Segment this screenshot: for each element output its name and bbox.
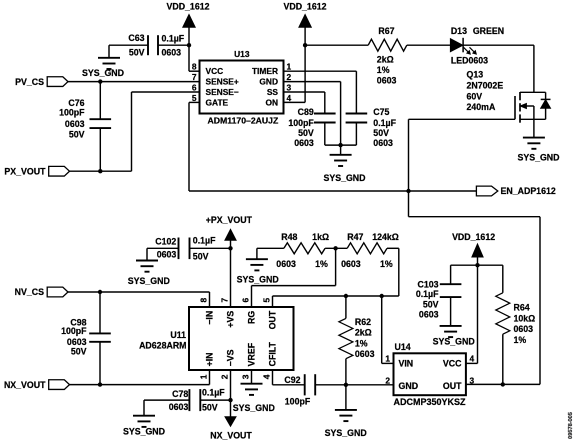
svg-text:0603: 0603 [341,259,361,269]
svg-text:SYS_GND: SYS_GND [323,173,365,183]
svg-text:VDD_1612: VDD_1612 [452,232,495,242]
svg-text:3: 3 [287,82,292,92]
svg-text:0603: 0603 [377,75,397,85]
svg-text:0.1µF: 0.1µF [416,289,439,299]
svg-text:1%: 1% [315,259,328,269]
svg-text:5: 5 [261,298,271,303]
svg-text:C63: C63 [128,33,144,43]
svg-text:U13: U13 [234,49,250,59]
svg-text:Q13: Q13 [467,70,484,80]
svg-text:1%: 1% [380,259,393,269]
svg-text:100pF: 100pF [59,108,85,118]
svg-text:C102: C102 [155,237,176,247]
svg-text:ADM1170–2AUJZ: ADM1170–2AUJZ [208,115,279,125]
svg-text:0603: 0603 [169,402,189,412]
svg-text:R67: R67 [378,26,394,36]
svg-text:VIN: VIN [399,359,414,369]
svg-text:VDD_1612: VDD_1612 [166,1,209,11]
svg-text:0603: 0603 [65,119,85,129]
svg-text:VCC: VCC [206,66,224,76]
svg-text:1: 1 [385,354,390,364]
svg-text:50V: 50V [373,128,389,138]
svg-text:+VS: +VS [225,311,235,328]
svg-text:SYS_GND: SYS_GND [233,403,275,413]
svg-text:R47: R47 [347,232,363,242]
svg-text:8: 8 [198,298,208,303]
svg-text:LED0603: LED0603 [451,56,488,66]
svg-text:NX_VOUT: NX_VOUT [210,431,252,441]
svg-text:C75: C75 [373,107,389,117]
svg-text:SYS_GND: SYS_GND [237,274,279,284]
svg-text:0603: 0603 [514,324,534,334]
svg-text:CFILT: CFILT [267,342,277,367]
svg-text:R64: R64 [514,303,530,313]
svg-text:2: 2 [385,375,390,385]
svg-text:1: 1 [287,62,292,72]
svg-text:VCC: VCC [443,359,462,369]
svg-text:5: 5 [192,93,197,103]
svg-text:100pF: 100pF [61,326,87,336]
svg-text:GND: GND [259,77,278,87]
svg-text:0.1µF: 0.1µF [202,387,225,397]
svg-text:C76: C76 [68,98,84,108]
svg-text:GATE: GATE [206,97,229,107]
svg-text:VDD_1612: VDD_1612 [283,1,326,11]
svg-text:10kΩ: 10kΩ [514,313,536,323]
svg-text:R62: R62 [355,317,371,327]
svg-text:SYS_GND: SYS_GND [433,336,475,346]
svg-text:NV_CS: NV_CS [15,287,44,297]
svg-text:4: 4 [470,354,475,364]
svg-text:7: 7 [219,298,229,303]
svg-text:C92: C92 [284,375,300,385]
svg-text:+IN: +IN [204,352,214,366]
svg-text:0603: 0603 [276,259,296,269]
svg-text:SYS_GND: SYS_GND [128,276,170,286]
svg-text:ADCMP350YKSZ: ADCMP350YKSZ [394,397,467,407]
svg-text:EN_ADP1612: EN_ADP1612 [501,186,556,196]
svg-text:0.1µF: 0.1µF [193,236,216,246]
svg-text:6: 6 [240,298,250,303]
svg-text:09578-005: 09578-005 [568,412,574,439]
svg-text:50V: 50V [202,403,218,413]
svg-text:OUT: OUT [443,381,462,391]
svg-text:SYS_GND: SYS_GND [82,68,124,78]
svg-text:1kΩ: 1kΩ [312,232,329,242]
svg-text:4: 4 [261,374,271,379]
svg-text:−VS: −VS [225,349,235,366]
svg-text:100pF: 100pF [285,396,311,406]
svg-text:1%: 1% [355,338,368,348]
svg-text:R48: R48 [281,232,297,242]
svg-text:1: 1 [198,374,208,379]
svg-text:SS: SS [267,87,279,97]
svg-text:0603: 0603 [355,349,375,359]
svg-text:SYS_GND: SYS_GND [123,426,165,436]
svg-text:C78: C78 [172,389,188,399]
svg-text:RG: RG [246,311,256,324]
svg-text:2kΩ: 2kΩ [355,328,372,338]
svg-text:0603: 0603 [419,309,439,319]
svg-text:1%: 1% [377,65,390,75]
svg-text:0603: 0603 [294,138,314,148]
svg-text:0.1µF: 0.1µF [162,33,185,43]
svg-text:GREEN: GREEN [473,26,504,36]
svg-text:50V: 50V [129,48,145,58]
svg-text:C89: C89 [298,107,314,117]
svg-text:SENSE−: SENSE− [206,87,239,97]
svg-text:−IN: −IN [204,311,214,325]
svg-text:ON: ON [265,97,278,107]
svg-text:D13: D13 [451,26,467,36]
svg-text:0.1µF: 0.1µF [373,118,396,128]
svg-text:SYS_GND: SYS_GND [325,428,367,438]
svg-text:2N7002E: 2N7002E [467,80,504,90]
svg-text:PV_CS: PV_CS [15,77,44,87]
svg-text:NX_VOUT: NX_VOUT [4,380,46,390]
svg-text:SYS_GND: SYS_GND [517,152,559,162]
svg-text:50V: 50V [71,346,87,356]
svg-text:U11: U11 [170,330,186,340]
svg-text:8: 8 [192,62,197,72]
svg-text:124kΩ: 124kΩ [372,232,399,242]
svg-text:TIMER: TIMER [252,66,278,76]
svg-text:0603: 0603 [373,138,393,148]
svg-text:AD628ARM: AD628ARM [139,341,186,351]
svg-text:U14: U14 [395,342,411,352]
svg-text:50V: 50V [193,251,209,261]
svg-text:1%: 1% [514,335,527,345]
svg-text:+PX_VOUT: +PX_VOUT [206,215,253,225]
svg-text:6: 6 [192,82,197,92]
svg-text:50V: 50V [423,300,439,310]
svg-text:0603: 0603 [157,250,177,260]
svg-text:SENSE+: SENSE+ [206,77,239,87]
svg-text:4: 4 [287,93,292,103]
svg-text:3: 3 [240,374,250,379]
svg-text:100pF: 100pF [288,118,314,128]
svg-text:GND: GND [399,381,419,391]
svg-text:OUT: OUT [267,310,277,329]
svg-text:50V: 50V [69,129,85,139]
svg-text:PX_VOUT: PX_VOUT [4,166,46,176]
svg-text:2kΩ: 2kΩ [377,55,394,65]
svg-text:60V: 60V [467,91,483,101]
svg-text:0603: 0603 [162,48,182,58]
svg-text:50V: 50V [298,128,314,138]
svg-text:7: 7 [192,72,197,82]
svg-text:VREF: VREF [246,342,256,366]
svg-text:240mA: 240mA [467,102,496,112]
svg-text:2: 2 [219,374,229,379]
svg-text:2: 2 [287,72,292,82]
